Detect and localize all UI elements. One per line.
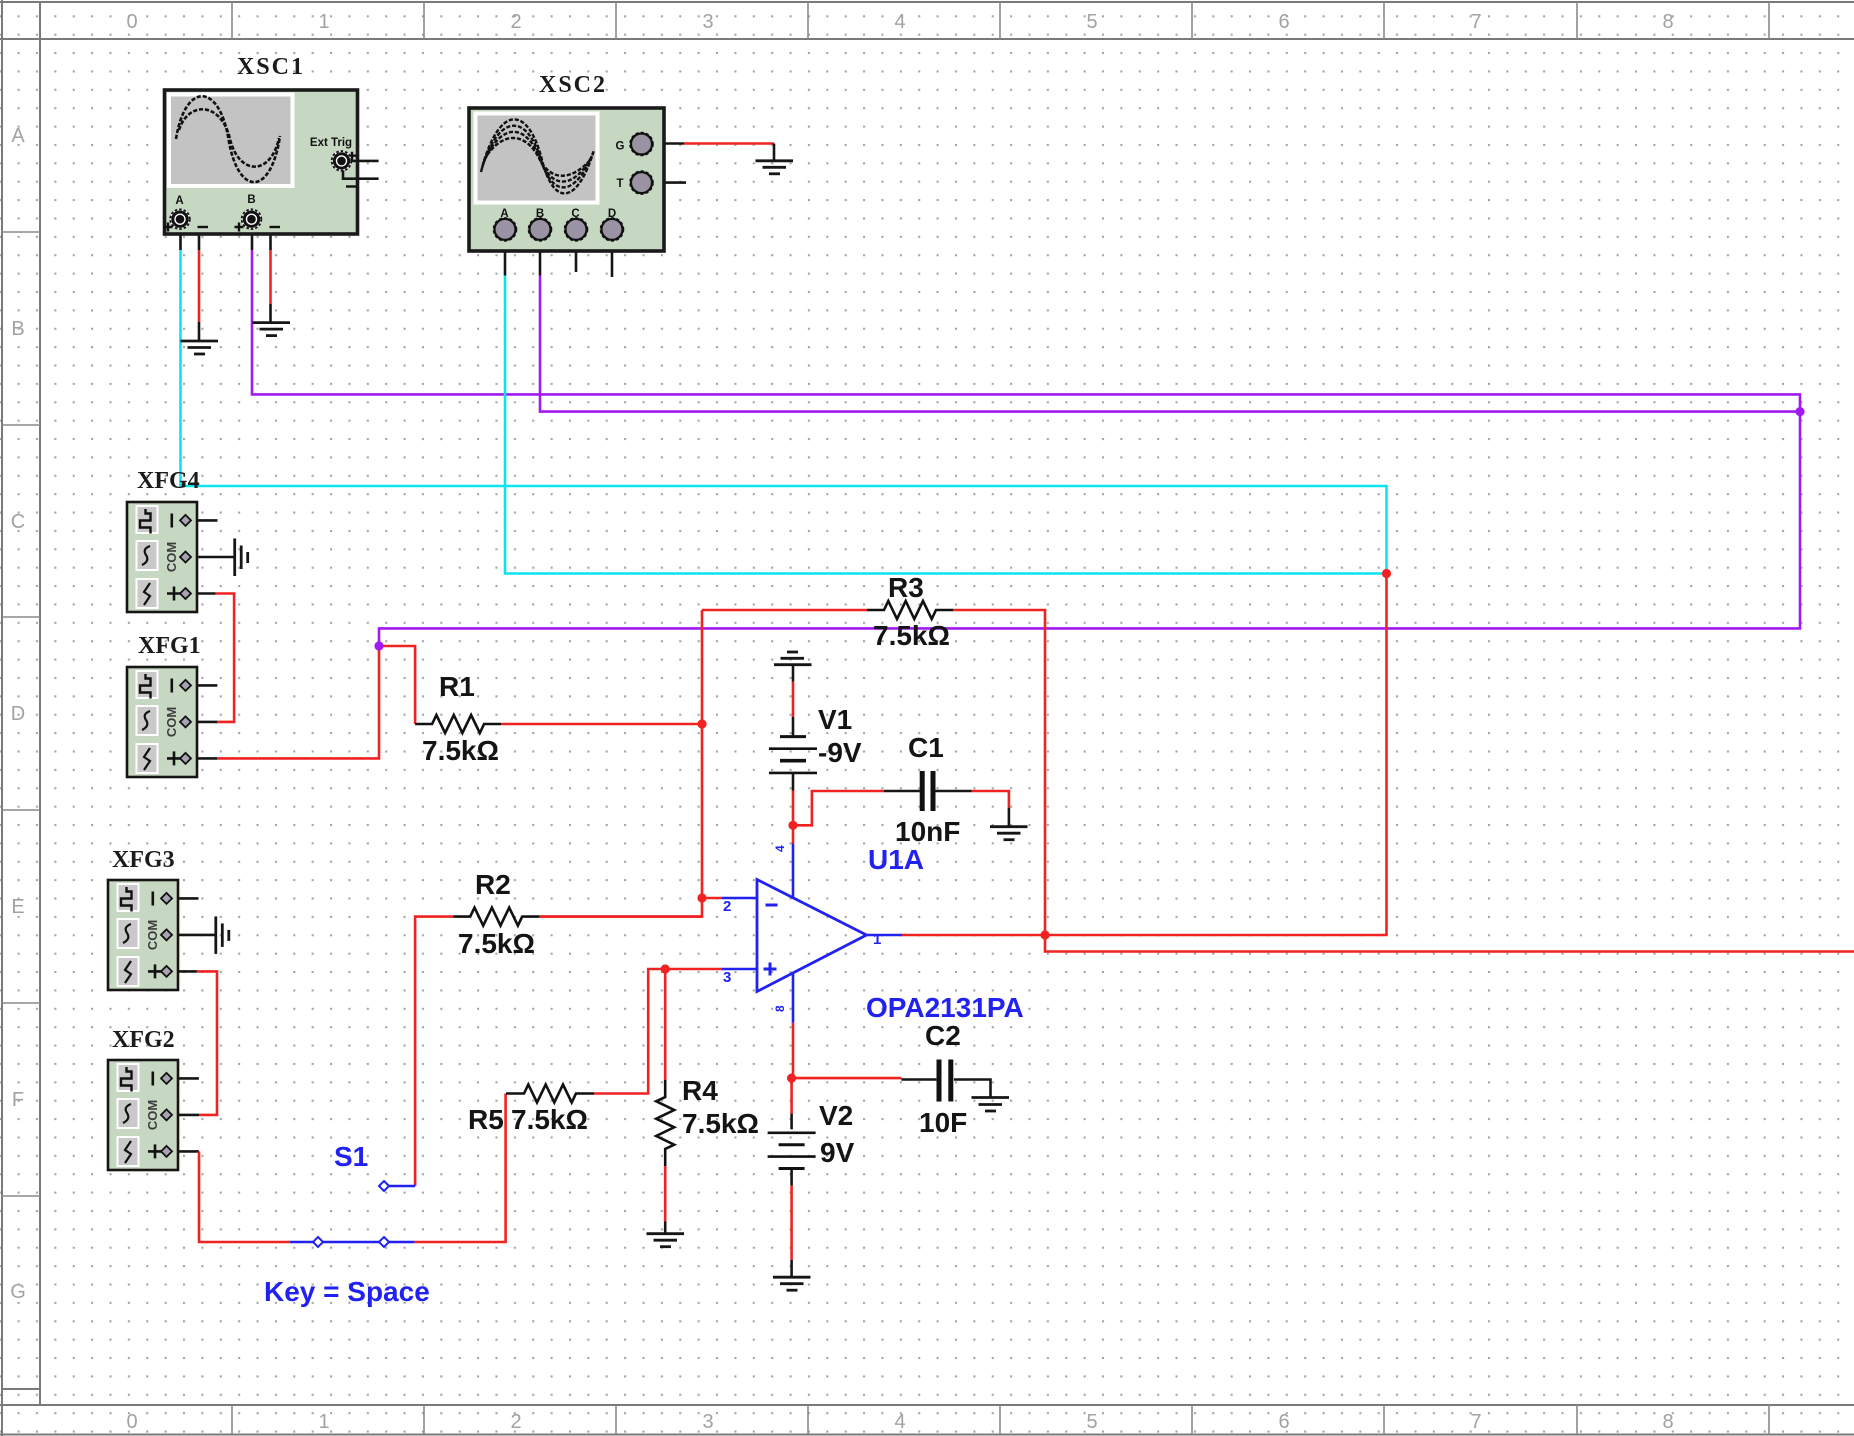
battery V2 bbox=[768, 1133, 816, 1169]
wire pin8 to V2/C2 node bbox=[792, 1023, 795, 1078]
svg-text:V1: V1 bbox=[818, 704, 852, 735]
wire XSC2 G to ground bbox=[652, 142, 684, 145]
svg-text:5: 5 bbox=[1086, 1411, 1097, 1433]
wire XFG1 plus to node (R1 input net) bbox=[186, 757, 217, 760]
function generator XFG2 bbox=[108, 1060, 178, 1170]
svg-text:2: 2 bbox=[510, 1411, 521, 1433]
XSC1 terminal B bbox=[242, 209, 262, 229]
wire XFG4 COM to ground bbox=[186, 556, 234, 559]
svg-text:R1: R1 bbox=[439, 671, 475, 702]
wire minus input pin blue bbox=[722, 897, 757, 900]
wire XSC1 A+ cyan net to output node bbox=[181, 250, 1387, 572]
svg-text:10F: 10F bbox=[919, 1107, 967, 1138]
wire V2 bottom to ground bbox=[790, 1169, 793, 1186]
svg-text:R3: R3 bbox=[888, 572, 924, 603]
wire XSC1 B+ black stub bbox=[251, 223, 254, 250]
svg-text:3: 3 bbox=[702, 1411, 713, 1433]
ground at XSC2 G bbox=[756, 161, 794, 174]
switch S1 bbox=[313, 1181, 389, 1247]
XSC2 knob A bbox=[495, 219, 516, 240]
svg-text:COM: COM bbox=[164, 707, 179, 737]
svg-text:R5: R5 bbox=[468, 1104, 504, 1135]
wire R3 loop left vertical (minus input net) bbox=[539, 610, 702, 917]
wire S1 blue segments bbox=[290, 1241, 313, 1244]
svg-text:3: 3 bbox=[723, 969, 731, 986]
XSC2 knob D bbox=[602, 219, 623, 240]
ground above V1 (flipped) bbox=[774, 652, 812, 665]
junction node output bbox=[1040, 930, 1049, 939]
XSC2 knob C bbox=[566, 219, 587, 240]
wire minus pin stub bbox=[702, 897, 722, 900]
wire C1 right to ground bbox=[972, 791, 1009, 808]
svg-text:S1: S1 bbox=[334, 1141, 368, 1172]
junction node plus input bbox=[661, 964, 670, 973]
wire XSC2 A cyan bbox=[505, 276, 1387, 574]
wire C1 left L bbox=[793, 791, 884, 825]
svg-text:7.5kΩ: 7.5kΩ bbox=[458, 928, 535, 959]
svg-text:C: C bbox=[11, 511, 25, 533]
wire V1 bottom to op-amp pin4 / C1 bbox=[792, 773, 795, 791]
svg-text:R2: R2 bbox=[475, 869, 511, 900]
junction node purple input bbox=[374, 641, 383, 650]
resistor R1 bbox=[415, 715, 501, 733]
XSC2 knob T bbox=[631, 172, 652, 193]
svg-text:COM: COM bbox=[164, 542, 179, 572]
svg-text:6: 6 bbox=[1278, 1411, 1289, 1433]
wire C2 right to ground bbox=[954, 1080, 991, 1098]
svg-text:Key = Space: Key = Space bbox=[264, 1276, 430, 1307]
function generator XFG4 bbox=[127, 502, 197, 612]
wire XSC1 A+ black stub bbox=[179, 223, 182, 250]
svg-text:4: 4 bbox=[894, 1411, 905, 1433]
svg-text:3: 3 bbox=[702, 11, 713, 33]
junction node R1/minus net bbox=[697, 719, 706, 728]
svg-text:XFG3: XFG3 bbox=[112, 847, 175, 873]
svg-text:R4: R4 bbox=[682, 1075, 718, 1106]
wire op-amp pin4 blue bbox=[792, 844, 795, 899]
ground under XSC1 B- bbox=[253, 323, 291, 336]
svg-text:XFG4: XFG4 bbox=[137, 468, 200, 494]
svg-text:OPA2131PA: OPA2131PA bbox=[866, 992, 1024, 1023]
wire XSC1 B- to ground bbox=[259, 219, 271, 250]
XSC2 knob B bbox=[530, 219, 551, 240]
wire plus input pin blue bbox=[722, 968, 757, 971]
wire op-amp pin8 blue bbox=[792, 973, 795, 1023]
svg-text:9V: 9V bbox=[820, 1137, 855, 1168]
XSC1 Ext Trig terminal bbox=[350, 160, 379, 163]
wire XFG3 plus to XFG2 COM bbox=[166, 970, 197, 973]
wire R4 bottom to ground bbox=[664, 1166, 667, 1222]
svg-text:-9V: -9V bbox=[818, 737, 862, 768]
battery V1 bbox=[769, 737, 817, 773]
svg-text:V2: V2 bbox=[819, 1100, 853, 1131]
XSC2 knob G bbox=[631, 134, 652, 155]
wire V2 top bbox=[790, 1078, 793, 1114]
svg-text:A: A bbox=[11, 125, 25, 147]
wire XSC2 T stub bbox=[652, 181, 686, 184]
svg-text:U1A: U1A bbox=[868, 844, 924, 875]
wire XSC1 B+ purple net (input monitor) bbox=[252, 250, 1800, 646]
junction node V2/pin8/C2 bbox=[787, 1074, 796, 1083]
svg-text:B: B bbox=[11, 318, 24, 340]
svg-text:6: 6 bbox=[1278, 11, 1289, 33]
svg-text:8: 8 bbox=[1662, 11, 1673, 33]
svg-text:XSC2: XSC2 bbox=[539, 72, 607, 98]
svg-text:0: 0 bbox=[126, 1411, 137, 1433]
wire XFG2 plus to switch bbox=[166, 1150, 199, 1153]
svg-text:7.5kΩ: 7.5kΩ bbox=[682, 1108, 759, 1139]
wire switch pole to R5 bbox=[414, 1094, 505, 1243]
wire XSC2 D stub bbox=[611, 240, 614, 277]
resistor R2 bbox=[453, 908, 539, 926]
ground below V2 bbox=[773, 1277, 811, 1290]
wire C2 left bbox=[792, 1077, 902, 1080]
wire V1 top to ground bbox=[792, 665, 795, 682]
wire XFG3 COM to ground bbox=[166, 934, 216, 937]
oscilloscope XSC1 bbox=[164, 90, 379, 234]
wire R5 right to plus node bbox=[594, 969, 722, 1094]
junction node V1/pin4/C1 bbox=[788, 821, 797, 830]
svg-text:5: 5 bbox=[1086, 11, 1097, 33]
svg-text:7: 7 bbox=[1470, 11, 1481, 33]
ground right of C2 bbox=[972, 1098, 1010, 1112]
junction node output/scope bbox=[1382, 569, 1391, 578]
wire R1 right to minus net bbox=[501, 723, 702, 726]
ground at XFG3 COM (rotated) bbox=[216, 916, 229, 954]
wire XSC2 B black stub bbox=[539, 240, 542, 276]
junction node minus pin bbox=[697, 893, 706, 902]
svg-text:Ext Trig: Ext Trig bbox=[310, 137, 352, 149]
ground at XFG4 COM (rotated) bbox=[235, 539, 248, 577]
wire XFG1 minus stub bbox=[186, 684, 217, 687]
wire output pin blue bbox=[867, 934, 903, 937]
svg-text:XFG1: XFG1 bbox=[138, 633, 201, 659]
svg-text:7.5kΩ: 7.5kΩ bbox=[873, 620, 950, 651]
wire XSC2 C stub bbox=[575, 240, 578, 272]
wire R4 top bbox=[664, 969, 667, 1080]
wire XFG4 minus stub bbox=[186, 519, 218, 522]
svg-text:4: 4 bbox=[894, 11, 905, 33]
wire output to right edge bbox=[902, 572, 1387, 935]
wire XSC1 A- to ground bbox=[187, 219, 199, 250]
svg-text:A: A bbox=[175, 195, 183, 207]
svg-text:8: 8 bbox=[1662, 1411, 1673, 1433]
wire XFG2 minus stub bbox=[166, 1077, 199, 1080]
capacitor C1 bbox=[922, 771, 933, 811]
op-amp U1A bbox=[723, 845, 881, 1012]
wire XSC2 A black stub bbox=[504, 240, 507, 276]
wire R3 left bbox=[702, 609, 867, 612]
svg-text:XFG2: XFG2 bbox=[112, 1027, 175, 1053]
svg-text:8: 8 bbox=[773, 1005, 787, 1012]
wire C1 leads bbox=[884, 790, 920, 793]
function generator XFG1 bbox=[127, 667, 197, 777]
svg-text:10nF: 10nF bbox=[895, 816, 960, 847]
svg-text:0: 0 bbox=[126, 11, 137, 33]
svg-text:T: T bbox=[616, 178, 623, 190]
svg-text:COM: COM bbox=[145, 1100, 160, 1130]
wire XSC2 B purple bbox=[540, 276, 1800, 412]
svg-text:B: B bbox=[247, 194, 255, 206]
ground below R4 bbox=[647, 1234, 685, 1247]
junction node purple XSC2-B bbox=[1795, 407, 1804, 416]
svg-text:1: 1 bbox=[873, 931, 881, 948]
svg-text:G: G bbox=[616, 141, 625, 153]
svg-text:2: 2 bbox=[510, 11, 521, 33]
resistor R3 bbox=[867, 601, 953, 619]
function generator XFG3 bbox=[108, 880, 178, 990]
svg-text:G: G bbox=[10, 1281, 26, 1303]
svg-text:COM: COM bbox=[145, 920, 160, 950]
wire switch throw up to R2 bbox=[415, 917, 453, 1186]
ground right of C1 bbox=[990, 827, 1028, 840]
svg-text:1: 1 bbox=[318, 11, 329, 33]
svg-text:C1: C1 bbox=[908, 732, 944, 763]
svg-text:1: 1 bbox=[318, 1411, 329, 1433]
oscilloscope XSC2 bbox=[469, 108, 664, 251]
svg-text:7: 7 bbox=[1470, 1411, 1481, 1433]
svg-text:D: D bbox=[11, 703, 25, 725]
capacitor C2 bbox=[939, 1060, 951, 1102]
svg-text:7.5kΩ: 7.5kΩ bbox=[422, 735, 499, 766]
wire XFG3 minus stub bbox=[166, 897, 199, 900]
svg-text:2: 2 bbox=[723, 898, 731, 915]
svg-text:4: 4 bbox=[773, 845, 787, 852]
wire R3 right down to output bbox=[953, 610, 1045, 935]
resistor R4 (vertical) bbox=[656, 1080, 674, 1166]
svg-text:F: F bbox=[12, 1089, 24, 1111]
svg-text:E: E bbox=[11, 896, 24, 918]
XSC1 terminal A bbox=[170, 209, 190, 229]
resistor R5 bbox=[506, 1085, 594, 1103]
svg-text:XSC1: XSC1 bbox=[237, 54, 305, 80]
svg-text:C2: C2 bbox=[925, 1020, 961, 1051]
wire node to R1 bbox=[379, 646, 415, 724]
wire R2 right to minus junction bbox=[539, 915, 702, 918]
wire XFG4 plus to XFG1 COM bbox=[186, 592, 216, 595]
wire output long line to sheet edge bbox=[1045, 935, 1854, 952]
ground under XSC1 A- bbox=[181, 341, 219, 354]
svg-text:7.5kΩ: 7.5kΩ bbox=[511, 1104, 588, 1135]
